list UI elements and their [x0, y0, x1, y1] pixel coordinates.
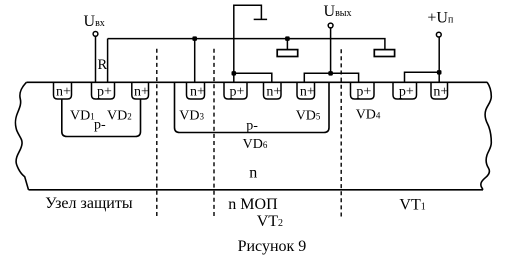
wire +Up to p+ box9: [405, 72, 440, 82]
svg-text:VD4: VD4: [356, 108, 381, 123]
svg-text:p+: p+: [230, 85, 245, 100]
n+ box 6: [264, 82, 282, 99]
svg-text:VT2: VT2: [257, 213, 283, 230]
ground symbol wire: [234, 5, 262, 73]
junction dot Uvyx wire: [328, 71, 333, 76]
svg-text:n+: n+: [300, 85, 315, 100]
terminal Uvyx circle: [328, 23, 333, 28]
surface line: [26, 81, 487, 83]
terminal Uvx circle: [93, 32, 98, 37]
svg-text:n МОП: n МОП: [228, 196, 278, 213]
p+ box 9: [393, 82, 417, 99]
wire R branch vertical: [107, 39, 109, 83]
junction dot bus/gate1: [285, 36, 290, 41]
svg-text:R: R: [98, 57, 108, 73]
svg-text:p+: p+: [356, 85, 371, 100]
svg-text:n: n: [249, 164, 257, 181]
junction dot bus/VD3: [192, 36, 197, 41]
svg-text:p+: p+: [399, 85, 414, 100]
p- well middle VD6: [175, 82, 330, 132]
p- well left (узел защиты): [62, 99, 141, 137]
svg-text:VD5: VD5: [296, 108, 321, 123]
svg-text:p-: p-: [94, 118, 106, 133]
junction dot ground wire: [232, 71, 237, 76]
svg-text:Uвых: Uвых: [324, 3, 352, 20]
svg-text:+Uп: +Uп: [427, 10, 454, 27]
svg-text:Рисунок 9: Рисунок 9: [238, 238, 307, 255]
svg-text:VD6: VD6: [243, 137, 268, 152]
svg-text:n+: n+: [190, 85, 205, 100]
svg-text:n+: n+: [433, 85, 448, 100]
substrate bottom line: [29, 189, 484, 191]
ground symbol bar: [254, 18, 267, 20]
right torn edge: [481, 82, 491, 190]
svg-text:n+: n+: [266, 85, 281, 100]
svg-text:n+: n+: [56, 85, 71, 100]
svg-text:VD2: VD2: [107, 108, 132, 123]
p+ box 2: [92, 82, 115, 99]
junction dot +Up wire: [437, 70, 442, 75]
wire +Up vertical: [438, 37, 440, 82]
wire drop to VD3 n+: [194, 39, 196, 83]
wire Uvx to p+ box2: [95, 37, 97, 83]
gate electrode 2: [374, 50, 394, 57]
gate stub 1: [286, 39, 288, 50]
gate electrode 1: [277, 50, 298, 57]
p+ box 8: [351, 82, 375, 99]
svg-text:p-: p-: [246, 119, 258, 134]
svg-text:n+: n+: [134, 85, 149, 100]
svg-text:Uвх: Uвх: [84, 13, 105, 30]
svg-text:VT1: VT1: [399, 197, 425, 214]
n+ box 7: [297, 82, 315, 99]
terminal +Up circle: [436, 32, 441, 37]
left torn edge: [15, 82, 28, 190]
svg-text:Узел защиты: Узел защиты: [45, 195, 133, 212]
svg-text:VD3: VD3: [179, 108, 204, 123]
p+ box 5: [224, 82, 247, 99]
wire Uvyx vertical: [330, 28, 332, 73]
n+ box 3: [132, 82, 149, 99]
svg-text:VD1: VD1: [70, 108, 95, 123]
n+ box 4 VD3: [187, 82, 205, 99]
dashed boundary 1: [156, 49, 158, 217]
wire ground to p+ box5: [233, 73, 235, 82]
wire ground to n+ box6: [234, 73, 272, 82]
dashed boundary 2: [213, 49, 215, 217]
n+ box 1: [54, 82, 72, 99]
wire Uvyx to n+ box7 and p+ box8: [304, 73, 358, 82]
n+ box 10: [431, 82, 448, 99]
dashed boundary 3: [340, 49, 342, 217]
gate bus wire: [108, 39, 385, 50]
svg-text:p+: p+: [97, 85, 112, 100]
